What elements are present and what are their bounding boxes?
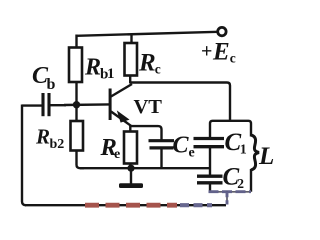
svg-text:R: R (138, 50, 156, 77)
svg-text:E: E (212, 39, 230, 66)
label Rb1 (84, 55, 115, 83)
wire collector to tank (130, 83, 230, 122)
wire tank bottom (209, 191, 252, 193)
wire tank to bottom rail (226, 192, 228, 205)
svg-text:e: e (114, 147, 120, 162)
wire base (64, 103, 109, 106)
wire top supply rail (77, 32, 219, 36)
terminal +Ec (218, 27, 226, 35)
bottom dashes blue (180, 203, 212, 207)
wire ground line (80, 167, 210, 169)
wire left feedback (22, 105, 26, 206)
svg-text:R: R (35, 125, 50, 149)
label Rb2 (35, 125, 64, 153)
label Re (100, 134, 121, 162)
label Ce (173, 133, 195, 161)
capacitor C1 (194, 139, 225, 176)
inductor L (251, 135, 259, 192)
svg-text:b2: b2 (50, 137, 65, 152)
transistor VT (109, 84, 132, 126)
label C1 (225, 129, 247, 158)
label +Ec (201, 39, 236, 66)
svg-text:c: c (155, 62, 161, 77)
svg-text:1: 1 (107, 66, 115, 82)
svg-text:R: R (84, 55, 101, 81)
resistor Rb2 (71, 105, 85, 168)
ground (119, 168, 143, 188)
junction dot base node (73, 101, 80, 108)
svg-text:L: L (258, 143, 274, 170)
capacitor C2 (197, 176, 223, 192)
wire bottom rail (25, 204, 226, 206)
label C2 (223, 164, 245, 192)
label Cb (32, 63, 56, 93)
svg-text:c: c (230, 51, 236, 66)
junction dot emitter ground (127, 165, 134, 172)
svg-text:C: C (173, 133, 190, 159)
wire tank top (210, 121, 251, 138)
svg-text:b: b (47, 76, 56, 93)
svg-text:1: 1 (240, 143, 247, 158)
label Rc (138, 50, 161, 77)
capacitor Cb (22, 93, 66, 116)
resistor Rb1 (69, 35, 82, 105)
capacitor Ce (149, 141, 175, 169)
svg-text:+: + (201, 41, 212, 63)
svg-text:2: 2 (237, 176, 244, 191)
resistor Rc (125, 34, 138, 84)
svg-text:VT: VT (134, 96, 163, 118)
resistor Re (124, 126, 137, 169)
wire emitter to Ce (131, 126, 162, 139)
bottom dashes red (85, 203, 177, 208)
